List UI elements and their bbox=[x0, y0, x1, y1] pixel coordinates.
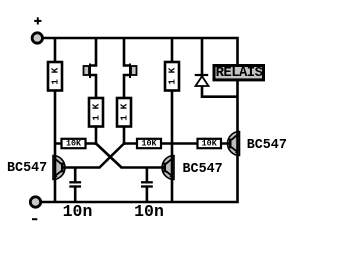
transistor Q1 base bar bbox=[61, 163, 64, 173]
svg-text:1 K: 1 K bbox=[119, 103, 130, 120]
resistor R6 value 10K bbox=[141, 139, 157, 149]
resistor R7 value 10K bbox=[202, 139, 218, 149]
resistor R3 value 1 K bbox=[119, 103, 130, 120]
capacitor C1 gap bbox=[68, 184, 83, 186]
resistor R1 value 1 K bbox=[50, 67, 61, 84]
wire column S2/R3 upper x=124 bbox=[124, 38, 129, 66]
svg-text:BC547: BC547 bbox=[7, 161, 47, 176]
transistor Q3 collector stroke bbox=[231, 135, 237, 140]
resistor R5 box 10K left bbox=[62, 139, 86, 148]
label BC547 for Q1 bbox=[7, 161, 47, 176]
relay K1 label bbox=[216, 65, 263, 81]
resistor R6 box 10K middle bbox=[137, 139, 161, 148]
svg-text:10K: 10K bbox=[202, 139, 218, 149]
resistor R2 value 1 K bbox=[91, 103, 102, 120]
wire Q2 base line y=167.5 bbox=[121, 166, 166, 169]
terminal - minus sign bbox=[32, 218, 37, 220]
terminal - pad bbox=[30, 197, 40, 207]
transistor Q2 emitter stroke with arrow bbox=[166, 171, 174, 178]
capacitor C1 plates bbox=[69, 182, 81, 186]
wire capacitor C1 leg x=75.2 bbox=[74, 168, 77, 203]
transistor Q3 body bbox=[228, 132, 240, 156]
transistor Q3 emitter stroke with arrow bbox=[231, 147, 239, 154]
wire column S2/R3 lower x=124 bbox=[124, 75, 129, 145]
resistor R4 box 1K bbox=[165, 62, 179, 91]
wire top rail from + terminal to right corner, down right side, bottom rail back to - terminal bbox=[36, 38, 238, 202]
pushbutton S2 pad bbox=[131, 66, 137, 75]
resistor R7 box 10K right bbox=[198, 139, 222, 148]
svg-text:BC547: BC547 bbox=[247, 138, 287, 153]
resistor R2 box 1K bbox=[89, 98, 103, 127]
capacitor C2 plates bbox=[141, 182, 153, 186]
pushbutton S2 bar bbox=[129, 64, 131, 79]
relay K1 box RELAIS bbox=[214, 66, 264, 80]
label 10n for C2 bbox=[134, 202, 164, 221]
transistor Q2 collector stroke bbox=[166, 159, 172, 164]
wire column R1/Q1 x=55 bbox=[54, 38, 57, 202]
transistor Q1 emitter stroke with arrow bbox=[54, 171, 62, 178]
wire mid left: Q1 collector node to S1 junction y=143.5 bbox=[55, 142, 96, 145]
diode D1 triangle bbox=[196, 76, 209, 86]
svg-text:10K: 10K bbox=[141, 139, 157, 149]
transistor Q3 base bar bbox=[229, 139, 232, 149]
svg-text:BC547: BC547 bbox=[183, 162, 223, 177]
transistor Q1 collector stroke bbox=[55, 159, 61, 164]
svg-text:RELAIS: RELAIS bbox=[216, 65, 263, 81]
wire diagonal S1 junction to Q2 base line bbox=[96, 144, 122, 168]
resistor R5 value 10K bbox=[66, 139, 82, 149]
svg-text:1 K: 1 K bbox=[167, 67, 178, 84]
svg-text:10n: 10n bbox=[134, 202, 164, 221]
terminal + plus sign bbox=[34, 17, 41, 24]
wire diode branch x=202 with corner to right rail bbox=[202, 38, 238, 97]
diode D1 cathode bar bbox=[195, 74, 209, 76]
svg-text:10n: 10n bbox=[63, 202, 93, 221]
transistor Q2 body bbox=[162, 156, 174, 180]
resistor R4 value 1 K bbox=[167, 67, 178, 84]
label BC547 for Q2 bbox=[183, 162, 223, 177]
wire column S1/R2 lower x=96 bbox=[91, 75, 96, 145]
pushbutton S1 bar bbox=[89, 64, 91, 79]
label BC547 for Q3 bbox=[247, 138, 287, 153]
capacitor C2 gap bbox=[140, 184, 155, 186]
svg-text:10K: 10K bbox=[66, 139, 82, 149]
transistor Q1 body bbox=[53, 156, 65, 180]
svg-text:1 K: 1 K bbox=[91, 103, 102, 120]
resistor R3 box 1K bbox=[117, 98, 131, 127]
wire capacitor C2 leg x=146.9 bbox=[146, 168, 149, 203]
wire column R4/Q2 x=172 bbox=[171, 38, 174, 202]
wire diagonal S2 junction to Q1 base line bbox=[100, 144, 125, 168]
terminal + pad bbox=[32, 33, 42, 43]
resistor R1 box 1K bbox=[48, 62, 62, 91]
label 10n for C1 bbox=[63, 202, 93, 221]
wire Q1 base line y=167.5 bbox=[62, 166, 101, 169]
wire column S1/R2 upper x=96 bbox=[91, 38, 96, 66]
svg-text:1 K: 1 K bbox=[50, 67, 61, 84]
transistor Q2 base bar bbox=[163, 163, 166, 173]
pushbutton S1 pad bbox=[84, 66, 90, 75]
wire mid right: S2 junction to Q3 base y=143.5 bbox=[124, 142, 230, 145]
